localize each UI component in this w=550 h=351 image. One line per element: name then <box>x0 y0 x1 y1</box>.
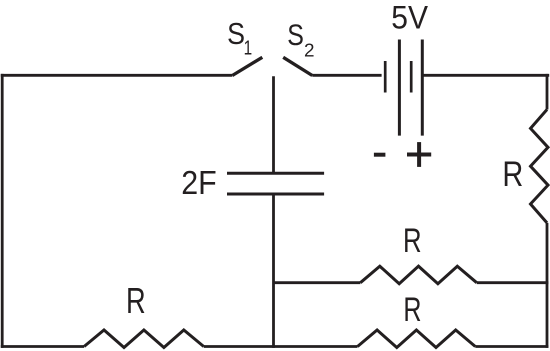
wire right upper <box>546 74 549 110</box>
svg-text:5V: 5V <box>391 0 428 36</box>
capacitor C1 top plate <box>227 172 324 175</box>
switch S2 blade <box>283 57 312 75</box>
battery B1 short plate 1 (negative) <box>384 61 387 93</box>
wire middle row right <box>477 281 549 284</box>
wire right lower <box>546 223 549 348</box>
wire middle pole (switch common down to capacitor) <box>272 76 275 173</box>
battery minus sign <box>374 153 386 157</box>
svg-text:R: R <box>502 154 523 193</box>
svg-text:2F: 2F <box>181 164 216 202</box>
wire bottom-middle segment <box>204 345 358 348</box>
battery plus sign horizontal <box>407 153 431 157</box>
svg-text:1: 1 <box>244 36 253 59</box>
wire middle row (junction to right) <box>274 281 361 284</box>
resistor R right (vertical zigzag) <box>531 110 549 223</box>
wire top-left segment <box>1 74 233 77</box>
wire top-right (battery to corner) <box>422 74 549 77</box>
battery B1 short plate 2 (negative) <box>410 61 413 93</box>
wire top-middle (S2 to battery) <box>312 74 381 77</box>
wire bottom-left segment <box>1 345 84 348</box>
resistor R middle-row zigzag <box>360 266 476 284</box>
resistor R bottom-left zigzag <box>84 330 204 348</box>
svg-text:R: R <box>126 280 146 321</box>
battery B1 long plate 2 (positive) <box>421 40 424 136</box>
resistor R bottom-right zigzag <box>358 330 476 348</box>
battery plus sign vertical <box>417 142 421 167</box>
switch S1 blade <box>232 57 262 75</box>
capacitor C1 bottom plate <box>227 193 324 196</box>
svg-text:R: R <box>403 223 422 260</box>
svg-text:S: S <box>227 18 245 52</box>
svg-text:R: R <box>403 291 421 329</box>
svg-text:2: 2 <box>304 40 315 61</box>
svg-text:S: S <box>287 18 304 51</box>
wire capacitor down to bottom <box>272 194 275 348</box>
wire bottom-right segment <box>475 345 548 348</box>
battery B1 long plate 1 <box>398 40 401 136</box>
wire left side <box>1 74 4 348</box>
